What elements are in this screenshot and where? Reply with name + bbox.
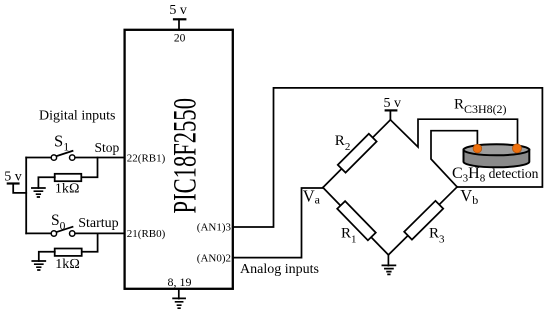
wire junction drop to R5 bbox=[82, 233, 98, 251]
switch S1 lever bbox=[57, 151, 73, 156]
switch S0 contacts bbox=[51, 231, 75, 236]
ground of R4 bbox=[32, 188, 45, 197]
svg-text:20: 20 bbox=[174, 33, 186, 45]
wire S0 to pin 21 bbox=[75, 232, 125, 234]
svg-text:Startup: Startup bbox=[78, 216, 118, 231]
resistor R5 1k body bbox=[55, 249, 82, 256]
svg-text:5 v: 5 v bbox=[169, 3, 187, 18]
wire AN0 pin2 to Va bbox=[233, 188, 323, 258]
svg-text:Digital inputs: Digital inputs bbox=[39, 108, 116, 123]
gas sensor body cylinder bbox=[464, 144, 530, 167]
svg-text:1kΩ: 1kΩ bbox=[55, 257, 80, 272]
svg-text:8, 19: 8, 19 bbox=[168, 275, 192, 289]
wire left bus bbox=[25, 158, 27, 234]
wire S0 feed from bus bbox=[26, 232, 51, 234]
wire bridge edge bottom to Vb bbox=[388, 187, 457, 255]
ground below bridge bbox=[387, 255, 389, 266]
wire bridge edge Va to bottom bbox=[323, 188, 389, 255]
wire Vb to sensor left electrode bbox=[431, 131, 477, 187]
svg-text:(AN0)2: (AN0)2 bbox=[197, 252, 231, 264]
power 5v left bar bbox=[8, 182, 19, 184]
switch S1 contacts bbox=[51, 155, 75, 160]
ground of R5 bbox=[32, 261, 45, 270]
wire top vertex to sensor right electrode bbox=[390, 119, 517, 147]
wire R4 left to ground bbox=[38, 177, 54, 188]
resistor R1 body bbox=[337, 201, 376, 240]
wire S1 feed from bus bbox=[26, 157, 51, 159]
resistor R4 1k body bbox=[55, 174, 82, 181]
svg-text:21(RB0): 21(RB0) bbox=[127, 228, 166, 240]
resistor R2 body bbox=[338, 134, 377, 173]
wire AN1 loop pin3 to Vb bbox=[233, 88, 543, 227]
wire junction drop to R4 bbox=[82, 158, 98, 178]
ground below chip bbox=[178, 289, 180, 299]
sensor left electrode bbox=[473, 144, 482, 153]
wire 5v to bridge top bbox=[389, 110, 391, 119]
svg-text:1kΩ: 1kΩ bbox=[55, 182, 80, 197]
svg-text:Analog inputs: Analog inputs bbox=[240, 262, 319, 277]
sensor right electrode bbox=[513, 144, 522, 153]
wire R5 left to ground bbox=[39, 252, 55, 261]
microcontroller U1 PIC18F2550 body bbox=[125, 30, 233, 289]
switch S0 lever bbox=[57, 227, 73, 232]
wire bridge edge top to Va bbox=[323, 120, 391, 188]
wire pin 20 stub bbox=[178, 19, 180, 30]
svg-text:5 v: 5 v bbox=[4, 170, 22, 185]
resistor R3 body bbox=[404, 201, 443, 240]
wire S1 to pin 22 bbox=[75, 157, 125, 159]
svg-text:Stop: Stop bbox=[95, 140, 120, 155]
svg-text:(AN1)3: (AN1)3 bbox=[197, 222, 232, 234]
power 5v top bar bbox=[174, 18, 185, 20]
wire 5v left feed bbox=[13, 184, 26, 193]
power 5v bridge bar bbox=[386, 109, 397, 111]
svg-text:5 v: 5 v bbox=[384, 96, 402, 111]
svg-text:22(RB1): 22(RB1) bbox=[127, 152, 166, 164]
svg-text:PIC18F2550: PIC18F2550 bbox=[167, 98, 203, 214]
